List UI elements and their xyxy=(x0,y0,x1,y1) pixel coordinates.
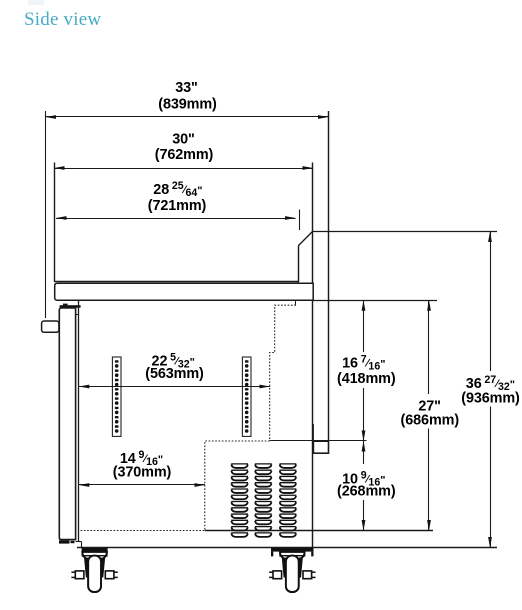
compressor compartment hidden lines xyxy=(205,441,270,531)
door panel xyxy=(59,308,75,540)
cabinet front wall xyxy=(78,300,80,541)
svg-text:(762mm): (762mm) xyxy=(155,147,214,163)
interior hidden wall (dashed step profile) xyxy=(295,300,297,305)
title: Side view xyxy=(24,9,101,31)
rail back chamfer xyxy=(299,232,313,246)
door seam tick xyxy=(76,314,79,316)
extension tick right 28 25/64" xyxy=(299,210,301,231)
door handle xyxy=(42,321,59,332)
caster right wide channel xyxy=(271,548,314,552)
extension line left 33" xyxy=(45,111,47,318)
svg-text:(268mm): (268mm) xyxy=(337,484,396,500)
svg-text:(418mm): (418mm) xyxy=(337,371,396,387)
extension line left 30" / rail left wall xyxy=(54,163,56,282)
rail bottom shelf line xyxy=(54,281,299,283)
condenser vent grille xyxy=(231,464,296,537)
bottom of cabinet line y=530.5 (extension for dims) xyxy=(205,530,433,532)
dimension 30" xyxy=(54,166,313,170)
svg-text:(839mm): (839mm) xyxy=(158,96,217,112)
rail tube foot bracket xyxy=(313,441,328,453)
svg-text:(563mm): (563mm) xyxy=(145,366,204,382)
svg-text:(686mm): (686mm) xyxy=(401,413,460,429)
svg-text:16 7⁄16": 16 7⁄16" xyxy=(342,354,385,373)
unit top line / extension for 36 27/32" xyxy=(313,231,498,233)
base step at front xyxy=(76,541,82,543)
shelf pilaster strip right xyxy=(242,357,251,436)
dimension 33" top xyxy=(46,115,329,119)
cutting board band xyxy=(55,283,314,300)
svg-text:33": 33" xyxy=(175,80,198,96)
dimension 22 5/32" interior width xyxy=(79,385,270,389)
caster right xyxy=(269,548,315,592)
faint cropped logo ghost xyxy=(28,0,44,5)
extension line right 30" / cabinet back edge xyxy=(312,163,314,548)
dimension 28 25/64" xyxy=(56,216,296,220)
rail right wall xyxy=(298,246,300,283)
svg-text:(936mm): (936mm) xyxy=(461,391,520,407)
door top hinge xyxy=(60,305,81,308)
dimension 36 27/32" vertical xyxy=(488,232,492,548)
dimension 10 9/16" vertical xyxy=(362,441,366,531)
shelf pilaster strip left xyxy=(112,357,121,436)
interior floor hidden line xyxy=(81,530,205,532)
dimension 16 7/16" vertical xyxy=(362,300,366,441)
back tube weld segment xyxy=(312,424,314,441)
dimension 14 9/16" xyxy=(79,483,205,487)
bottom base line y=547.5 / extension for 36 27/32" xyxy=(77,547,497,549)
caster left xyxy=(71,548,117,592)
svg-text:(370mm): (370mm) xyxy=(113,465,172,481)
extension line right 33" / rail back tube xyxy=(328,111,330,441)
dimension 27" vertical xyxy=(427,300,431,530)
svg-text:28 25⁄64": 28 25⁄64" xyxy=(153,180,202,199)
mid split line y=441 (solid part, extension for 16/10 dims) xyxy=(270,440,367,442)
svg-text:30": 30" xyxy=(172,132,195,148)
extension line y=300 to right dims xyxy=(313,300,437,302)
door bottom hinge xyxy=(59,540,70,543)
svg-text:(721mm): (721mm) xyxy=(148,198,207,214)
